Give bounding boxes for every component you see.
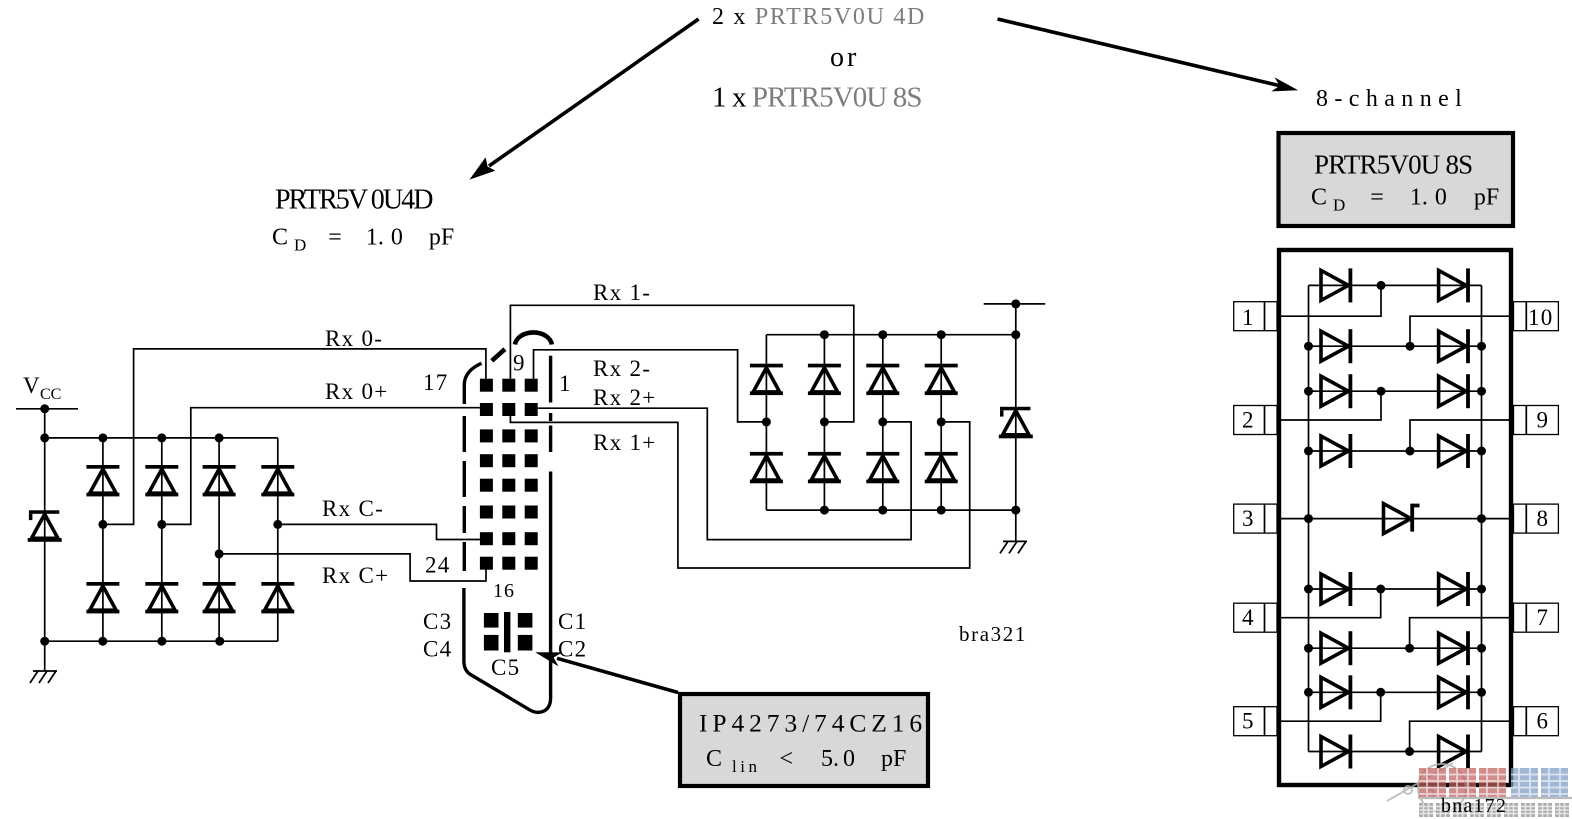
svg-text:C3: C3 — [423, 609, 452, 634]
wire Rx 2+ — [538, 408, 911, 539]
svg-text:Rx 0+: Rx 0+ — [325, 379, 389, 404]
IC zener D19 — [1384, 504, 1420, 534]
IC row 6 diode b — [1439, 572, 1470, 606]
svg-text:8-channel: 8-channel — [1316, 86, 1468, 112]
IC row 4 diode a — [1321, 434, 1352, 468]
IC row 7 dots — [1304, 644, 1486, 653]
IC row 1 diode a — [1321, 268, 1352, 302]
IC row 4 diode b — [1439, 434, 1470, 468]
IC row 9 diode b — [1439, 735, 1470, 769]
wire Rx 0- — [98, 349, 486, 529]
pin 9 box — [1514, 406, 1559, 435]
IC row 5 zener wire — [1281, 518, 1509, 520]
svg-text:16: 16 — [493, 580, 515, 602]
IC row 1 diode b — [1439, 268, 1470, 302]
diode D3 upper (left col3) — [203, 465, 236, 496]
svg-text:17: 17 — [423, 370, 449, 395]
connector outline (DVI receptacle) — [464, 332, 552, 712]
IC U1 body PRTR5V0U8S — [1279, 250, 1511, 785]
svg-text:10: 10 — [1528, 305, 1554, 330]
svg-text:24: 24 — [425, 553, 451, 578]
svg-text:2: 2 — [1242, 408, 1254, 433]
wire Rx 1- — [510, 305, 853, 422]
diode D2 upper (left col2) — [145, 465, 178, 496]
pin 6 wire — [1410, 721, 1509, 751]
svg-text:IP4273/74CZ16: IP4273/74CZ16 — [699, 709, 927, 738]
wire top rail (left array) — [45, 437, 278, 439]
diode D10 upper (right col1) — [750, 364, 783, 395]
IC row 4 wire — [1309, 450, 1482, 452]
svg-text:8: 8 — [1537, 506, 1549, 531]
svg-text:C1: C1 — [558, 609, 587, 634]
svg-text:Rx 0-: Rx 0- — [325, 326, 383, 351]
pin 8 box — [1514, 504, 1559, 533]
IC row 6 dots — [1304, 585, 1486, 594]
svg-text:C2: C2 — [558, 637, 587, 662]
svg-text:bna172: bna172 — [1441, 795, 1507, 817]
pin 7 box — [1514, 603, 1559, 632]
junction dots middle row (right) — [762, 417, 946, 426]
IC row 8 diode a — [1321, 675, 1352, 709]
arrow to PRTR5V0U4D (left) — [470, 19, 699, 180]
connector signal pins 3x8 grid — [480, 379, 538, 570]
wire column 2 (left array) — [161, 438, 163, 641]
IC row 9 wire — [1309, 751, 1482, 753]
IC row 8 diode b — [1439, 675, 1470, 709]
wire column 4 (left array) — [277, 438, 279, 641]
svg-text:9: 9 — [1537, 408, 1549, 433]
pin 5 box — [1234, 707, 1277, 736]
diode D12 upper (right col3) — [866, 364, 899, 395]
connector C-pins group — [484, 612, 532, 652]
pin 4 wire — [1281, 589, 1381, 618]
wire column 1 (left array) — [102, 438, 104, 641]
wire column 1 (right array) — [765, 335, 767, 510]
IC row 7 diode a — [1321, 631, 1352, 665]
svg-text:1 x PRTR5V0U 8S: 1 x PRTR5V0U 8S — [712, 82, 922, 114]
junction dots top rail (left) — [40, 433, 223, 442]
IP4273 box — [680, 694, 928, 786]
svg-text:bra321: bra321 — [959, 622, 1027, 646]
IC row 7 wire — [1309, 647, 1482, 649]
svg-text:4: 4 — [1242, 605, 1254, 630]
diode D13 upper (right col4) — [925, 364, 958, 395]
wire VCC column (left) — [44, 409, 46, 641]
watermark text YiDiTuo (red) — [1419, 768, 1506, 797]
diode D15 lower (right col2) — [808, 452, 841, 483]
IC row 4 dots — [1304, 447, 1486, 456]
pin 9 wire — [1410, 420, 1509, 451]
IC row 6 wire — [1309, 588, 1482, 590]
svg-text:9: 9 — [513, 351, 525, 376]
IC row 9 diode a — [1321, 735, 1352, 769]
wire Rx C+ — [215, 549, 486, 581]
junction dots bottom rail (right) — [820, 506, 1020, 515]
pin 5 wire — [1281, 692, 1381, 721]
wire Rx C- — [273, 520, 480, 540]
IC row 3 diode b — [1439, 374, 1470, 408]
wire column 2 (right array) — [823, 335, 825, 510]
svg-text:5: 5 — [1242, 709, 1254, 734]
IC row 3 wire — [1309, 390, 1482, 392]
watermark compass logo — [1387, 763, 1466, 812]
arrow IP4273 to C5 pins — [535, 652, 678, 692]
IC row 7 diode b — [1439, 631, 1470, 665]
IC left rail (GND) — [1308, 285, 1310, 751]
wire Rx 2- — [534, 350, 767, 422]
IC row 1 wire — [1309, 284, 1482, 286]
IC row 1 mid dot — [1377, 281, 1386, 290]
pin 10 box — [1514, 302, 1559, 331]
svg-text:2 x PRTR5V0U 4D: 2 x PRTR5V0U 4D — [712, 4, 926, 30]
pin 6 box — [1514, 707, 1559, 736]
pin 2 wire — [1281, 391, 1381, 420]
watermark text PeiXun (blue) — [1511, 768, 1568, 797]
IC row 2 diode a — [1321, 329, 1352, 363]
svg-text:Rx 1-: Rx 1- — [593, 280, 651, 305]
wire bottom rail (left array) — [45, 640, 278, 642]
svg-text:Rx C-: Rx C- — [322, 496, 384, 521]
svg-text:Rx 2-: Rx 2- — [593, 356, 651, 381]
IC row 3 diode a — [1321, 374, 1352, 408]
IC row 2 diode b — [1439, 329, 1470, 363]
IC row 2 dots — [1304, 342, 1486, 351]
diode D5 lower (left col1) — [86, 582, 119, 613]
node VCC (left) — [16, 373, 78, 413]
svg-text:6: 6 — [1537, 709, 1549, 734]
svg-text:C4: C4 — [423, 637, 452, 662]
IC row 3 dots — [1304, 387, 1486, 396]
wire Rx 1+ — [510, 416, 969, 568]
diode D4 upper (left col4) — [261, 465, 294, 496]
svg-text:PRTR5V 0U4D: PRTR5V 0U4D — [275, 185, 433, 216]
svg-text:PRTR5V0U 8S: PRTR5V0U 8S — [1314, 150, 1472, 180]
watermark divider line — [1418, 797, 1572, 799]
diode D17 lower (right col4) — [925, 452, 958, 483]
svg-text:CC: CC — [40, 386, 61, 403]
svg-text:CD=1.0pF: CD=1.0pF — [272, 225, 454, 255]
ground (right) — [1000, 510, 1027, 553]
svg-text:3: 3 — [1242, 506, 1254, 531]
PRTR5V0U8S title box — [1279, 133, 1514, 226]
wire bottom rail (right array) — [766, 509, 1015, 511]
junction dots top rail (right) — [820, 330, 1020, 339]
arrow to 8-channel (right) — [998, 19, 1299, 91]
pin 3 box — [1234, 504, 1277, 533]
IC row 6 diode a — [1321, 572, 1352, 606]
svg-text:V: V — [23, 373, 40, 398]
wire Rx 0+ — [157, 408, 480, 529]
diode D8 lower (left col4) — [261, 582, 294, 613]
diode D7 lower (left col3) — [203, 582, 236, 613]
pin 1 wire — [1281, 285, 1381, 316]
diode D1 upper (left col1) — [86, 465, 119, 496]
IC right rail (VCC) — [1481, 285, 1483, 751]
junction dots bottom rail (left) — [40, 637, 224, 646]
pin 2 box — [1234, 406, 1277, 435]
pin 10 wire — [1410, 316, 1509, 346]
pin 1 box — [1234, 302, 1277, 331]
IC row 2 wire — [1309, 345, 1482, 347]
wire column 3 (left array) — [218, 438, 220, 641]
wire column 3 (right array) — [882, 335, 884, 510]
IC row 8 dots — [1304, 688, 1486, 697]
wire top rail (right array) — [766, 334, 1015, 336]
svg-text:Rx 1+: Rx 1+ — [593, 430, 657, 455]
watermark slogan (gray) — [1419, 803, 1569, 817]
svg-text:7: 7 — [1537, 605, 1549, 630]
diode D14 lower (right col1) — [750, 452, 783, 483]
pin 4 box — [1234, 603, 1277, 632]
wire column 4 (right array) — [940, 335, 942, 510]
ground (left) — [30, 641, 57, 683]
wire VCC column (right) — [1015, 304, 1017, 510]
IC row 9 mid dot — [1405, 747, 1414, 756]
svg-text:C5: C5 — [491, 655, 520, 680]
svg-text:1: 1 — [1242, 305, 1254, 330]
zener diode D18 (right) — [999, 407, 1033, 439]
svg-text:Rx 2+: Rx 2+ — [593, 385, 657, 410]
diode D11 upper (right col2) — [808, 364, 841, 395]
pin 7 wire — [1410, 618, 1509, 649]
zener diode D9 (left) — [28, 510, 62, 542]
svg-text:1: 1 — [559, 371, 571, 396]
svg-text:or: or — [830, 42, 859, 73]
IC row 8 wire — [1309, 691, 1482, 693]
diode D6 lower (left col2) — [145, 582, 178, 613]
svg-text:Rx C+: Rx C+ — [322, 563, 389, 588]
diode D16 lower (right col3) — [866, 452, 899, 483]
node VCC stub (right) — [984, 299, 1045, 308]
IC row 5 dots — [1304, 514, 1486, 523]
